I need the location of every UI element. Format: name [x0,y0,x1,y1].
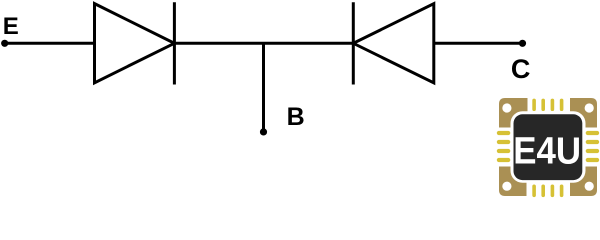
diode D1 cathode bar [173,2,176,84]
logo screw hole bottom-left [502,182,511,191]
logo chip body dark square [514,114,583,180]
logo top pins [532,99,563,111]
svg-text:C: C [511,54,531,84]
diode D2 cathode bar [352,2,355,84]
terminal B dot [260,128,267,135]
diode D1 triangle [95,4,175,83]
logo corner bracket bottom-left [499,167,527,197]
E4U logo (Electrical4U chip) [497,98,599,197]
logo bottom pins [532,185,563,198]
logo corner bracket top-right [570,98,597,128]
diode D2 triangle [353,4,434,83]
logo screw hole top-right [585,103,594,112]
wire D1 to D2 [174,42,353,45]
terminal C dot [519,40,526,47]
wire E to D1 [5,42,95,45]
wire D2 to C [434,42,523,45]
logo screw hole top-left [502,103,511,112]
logo left pins [497,131,511,162]
svg-text:E4U: E4U [513,130,581,172]
svg-text:B: B [287,103,305,131]
logo corner bracket top-left [499,98,528,128]
logo screw hole bottom-right [585,182,594,191]
logo corner bracket bottom-right [570,167,597,197]
terminal E dot [1,40,8,47]
logo right pins [586,131,600,162]
svg-text:E: E [3,13,19,40]
node B junction stub wire [262,43,265,132]
